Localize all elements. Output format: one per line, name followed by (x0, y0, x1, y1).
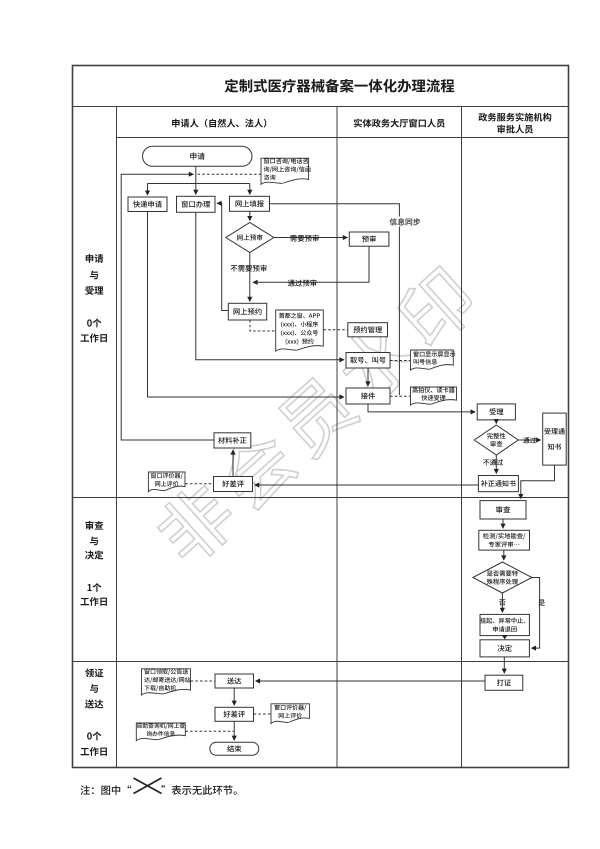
label stage 受理 (85, 286, 103, 295)
process 材料补正 (214, 433, 251, 448)
process 决定 (480, 640, 529, 657)
label 不需要预审 (231, 265, 267, 272)
process 好差评2 (215, 707, 254, 721)
label footer right (161, 785, 236, 795)
wire 申请合流->咨询 dashed (198, 173, 262, 175)
label stage 0个_3 (87, 732, 101, 741)
document note 查询方式 (136, 723, 185, 741)
document note 评价方式2 (271, 704, 310, 724)
grid line: col separator 1 (336, 107, 338, 768)
label 是 (538, 600, 545, 606)
wire 挂起->决定 (502, 635, 508, 639)
grid line: col separator 2 (461, 107, 463, 768)
process 网上预约 (228, 303, 266, 320)
wire 决定->打证 (503, 657, 505, 673)
wire 查询方式->流程线 dashed (185, 730, 233, 732)
watermark 非会员水印 (149, 262, 481, 571)
terminator 结束 (210, 742, 259, 755)
wire 窗口办理->取号叫号 (196, 213, 344, 360)
wire 分支横线 (148, 183, 250, 185)
label stage 与_1 (90, 271, 98, 280)
document note 预约渠道 (276, 310, 324, 351)
label stage 与_2 (90, 537, 98, 546)
wire 接件->快速受理 dashed (390, 395, 410, 397)
wire 取号叫号->接件 (367, 368, 369, 386)
label stage 送达 (85, 700, 104, 709)
label stage 工作日_3 (81, 747, 107, 756)
process 打证 (485, 675, 523, 690)
wire 网上预审->网上预约 (249, 253, 251, 302)
decision 完整性审查 (474, 425, 518, 455)
document note 评价方式1 (148, 472, 185, 492)
wire 送达方式->送达 dashed (191, 680, 215, 682)
wire 补正通知书->好差评 (255, 484, 478, 486)
process 接件 (346, 388, 390, 404)
label stage 审查 (85, 521, 103, 530)
label 不通过 (483, 459, 503, 465)
wire 好差评2->结束 (233, 721, 235, 740)
process 预约管理 (348, 323, 388, 337)
process 窗口办理 (177, 196, 216, 212)
label stage 0个_1 (87, 319, 101, 328)
process 检测实地勘查 (479, 530, 530, 550)
wire 特殊程序->决定 (532, 578, 540, 649)
wire 预审->回流 (253, 246, 369, 282)
grid line: band separator 1 (73, 497, 569, 499)
grid line: stage column (116, 107, 118, 768)
process 预审 (349, 232, 389, 246)
process 好差评1 (214, 477, 253, 492)
label footer left (80, 785, 131, 795)
label stage 1个 (87, 583, 101, 592)
wire 好差评2->评价方式 dashed (254, 713, 271, 715)
wire 分支->快递申请 (147, 184, 149, 195)
process 补正通知书 (478, 476, 518, 492)
wire 网上预约->窗口办理 (217, 203, 228, 310)
label stage 领证 (85, 668, 103, 677)
label header agency line1 (478, 113, 551, 122)
wire 评价方式->好差评 dashed (185, 483, 213, 485)
footer X symbol (134, 778, 162, 794)
label 信息同步 bg (387, 217, 424, 227)
process 快递申请 (128, 197, 167, 212)
wire 受理通知书->审查 (521, 465, 555, 498)
wire 网上填报->网上预审 (249, 211, 251, 220)
label header agency line2 (497, 125, 533, 134)
decision 特殊程序 (473, 562, 532, 593)
process 受理 (477, 404, 515, 420)
wire 网上预约->预约渠道 dashed (250, 320, 276, 331)
grid line: header bottom (116, 137, 569, 139)
wire 受理->完整性审查 (495, 420, 497, 424)
wire 接件->受理 (368, 404, 475, 412)
wire 检测->特殊程序 (503, 550, 505, 560)
wire 分支->网上填报 (249, 184, 251, 195)
grid line: title bottom (73, 106, 569, 108)
table outer border (73, 66, 569, 768)
label stage 决定 (85, 550, 103, 559)
terminator 申请 (143, 146, 253, 166)
wire 特殊程序->挂起 (501, 593, 503, 612)
wire 材料补正->回路 (121, 174, 214, 440)
wire 好差评->材料补正 (232, 450, 234, 476)
document note 送达方式 (142, 669, 191, 695)
label 否 (499, 599, 506, 605)
process 网上填报 (230, 196, 270, 211)
wire 审查->检测 (502, 519, 504, 528)
wire 打证->送达 (256, 680, 485, 682)
label header applicant (172, 119, 266, 128)
process 送达 (215, 674, 254, 688)
process 审查 (480, 501, 526, 519)
wire 完整性审查->补正通知书 (495, 455, 497, 473)
wire 申请->分支 (195, 166, 197, 183)
process 挂起异常中止 (480, 614, 529, 635)
process 取号、叫号 (346, 353, 390, 369)
document note 叫号信息 (411, 350, 456, 370)
document note 快速受理 (411, 387, 457, 405)
label header hall staff (354, 119, 445, 128)
wire 完整性审查->受理通知书 (518, 439, 540, 441)
label stage 与_3 (90, 684, 98, 693)
label stage 工作日_1 (81, 334, 107, 343)
process 受理通知书 (543, 413, 567, 465)
grid line: band separator 2 (73, 661, 569, 663)
label 信息同步 (390, 218, 421, 225)
wire 分支->窗口办理 (195, 184, 197, 195)
wire 取号叫号->叫号信息 dashed (390, 360, 410, 362)
wire 网上填报->信息同步 (270, 204, 400, 395)
decision 网上预审 (226, 223, 274, 253)
wire 网上预审->预审 (274, 237, 347, 239)
document note 咨询渠道 (261, 158, 310, 184)
label title (225, 79, 455, 93)
label 通过预审 (288, 279, 317, 286)
label stage 申请 (86, 254, 104, 263)
wire 快递申请->接件 (148, 212, 344, 398)
wire 预约渠道->预约管理 dashed (323, 329, 347, 331)
label stage 工作日_2 (81, 597, 107, 606)
wire 送达->好差评2 (233, 688, 235, 705)
label 通过 (523, 437, 536, 443)
label 需要预审 (290, 235, 319, 242)
